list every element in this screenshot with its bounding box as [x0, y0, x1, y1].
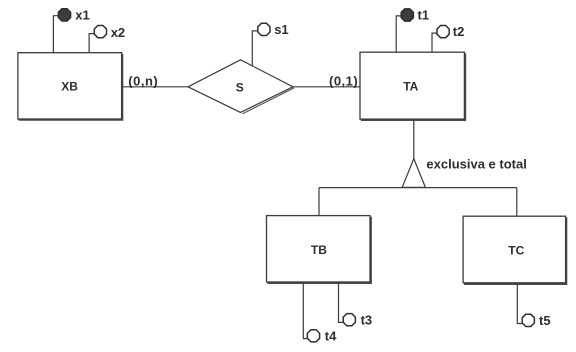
entity TB [267, 216, 371, 283]
wire down to TB [318, 188, 320, 216]
svg-text:t5: t5 [539, 313, 551, 328]
svg-text:TA: TA [403, 79, 418, 93]
attribute t1 stem [396, 16, 401, 52]
attribute s1 stem [252, 31, 257, 66]
wire down to TC [516, 188, 518, 217]
entity XB [18, 53, 122, 120]
entity TC [463, 216, 566, 284]
attribute t3 [343, 314, 355, 326]
attribute x1 stem [53, 16, 58, 53]
attribute x2 stem [89, 34, 94, 53]
attribute t2 [437, 26, 449, 38]
attribute s1 [258, 23, 270, 35]
attribute t5 stem [517, 283, 522, 324]
ISA triangle [402, 159, 425, 188]
svg-text:t1: t1 [418, 8, 430, 23]
label exclusiva e total [426, 157, 526, 172]
wire S to TA [293, 86, 360, 88]
attribute t4 stem [303, 282, 308, 339]
label t5 [539, 313, 551, 328]
attribute t3 stem [339, 282, 344, 322]
attribute x2 [94, 26, 106, 38]
label x2 [111, 25, 125, 40]
specialization horizontal wire [319, 187, 517, 189]
svg-text:x1: x1 [75, 8, 89, 23]
svg-text:TB: TB [311, 243, 327, 257]
attribute t1 (key) [401, 9, 413, 21]
label t1 [418, 8, 430, 23]
relationship S [188, 60, 294, 114]
entity TA [360, 52, 465, 120]
attribute x1 (key) [58, 9, 70, 21]
label t3 [361, 313, 373, 328]
svg-text:x2: x2 [111, 25, 125, 40]
attribute t2 stem [432, 33, 437, 52]
label s1 [274, 22, 288, 37]
label x1 [75, 8, 89, 23]
svg-text:t4: t4 [325, 329, 337, 344]
svg-text:(0,1): (0,1) [329, 73, 358, 88]
wire TA to triangle [413, 119, 415, 160]
cardinality (0,n) [128, 73, 158, 88]
svg-text:TC: TC [508, 243, 524, 257]
svg-text:t2: t2 [453, 24, 465, 39]
label t2 [453, 24, 465, 39]
wire XB to S [122, 86, 189, 88]
attribute t5 [522, 314, 534, 326]
label t4 [325, 329, 337, 344]
svg-text:exclusiva e total: exclusiva e total [426, 157, 526, 172]
svg-text:S: S [236, 81, 244, 95]
attribute t4 [307, 330, 319, 342]
svg-text:t3: t3 [361, 313, 373, 328]
svg-text:(0,n): (0,n) [128, 73, 158, 88]
cardinality (0,1) [329, 73, 358, 88]
svg-text:XB: XB [61, 79, 78, 93]
svg-text:s1: s1 [274, 22, 288, 37]
